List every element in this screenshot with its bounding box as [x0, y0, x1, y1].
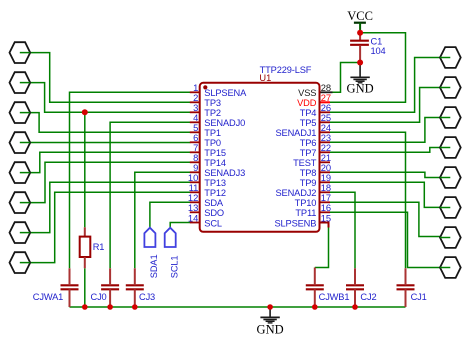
svg-text:CJ2: CJ2: [360, 292, 376, 302]
svg-text:SENADJ0: SENADJ0: [204, 118, 245, 128]
svg-text:TP3: TP3: [204, 98, 221, 108]
svg-text:SCL1: SCL1: [170, 256, 180, 279]
svg-text:104: 104: [371, 46, 386, 56]
svg-text:15: 15: [321, 212, 331, 223]
svg-text:SENADJ2: SENADJ2: [275, 188, 316, 198]
svg-text:TP5: TP5: [300, 118, 317, 128]
svg-text:TP8: TP8: [300, 168, 317, 178]
svg-text:VSS: VSS: [298, 88, 316, 98]
svg-text:CJWA1: CJWA1: [33, 292, 63, 302]
svg-text:VDD: VDD: [297, 98, 317, 108]
svg-text:CJWB1: CJWB1: [319, 292, 350, 302]
svg-text:TP4: TP4: [300, 108, 317, 118]
svg-text:GND: GND: [347, 82, 374, 96]
svg-text:SCL: SCL: [204, 218, 222, 228]
svg-text:VCC: VCC: [347, 9, 373, 23]
svg-text:SLPSENB: SLPSENB: [274, 218, 316, 228]
svg-text:TP11: TP11: [295, 208, 316, 218]
svg-text:TP7: TP7: [300, 148, 317, 158]
svg-text:GND: GND: [257, 323, 284, 337]
svg-text:SLPSENA: SLPSENA: [204, 88, 247, 98]
svg-text:SENADJ1: SENADJ1: [275, 128, 316, 138]
svg-text:TP1: TP1: [204, 128, 221, 138]
svg-text:CJ0: CJ0: [91, 292, 107, 302]
svg-text:TEST: TEST: [293, 158, 317, 168]
svg-text:TP0: TP0: [204, 138, 221, 148]
svg-text:TP15: TP15: [204, 148, 226, 158]
svg-text:SENADJ3: SENADJ3: [204, 168, 245, 178]
svg-text:TP14: TP14: [204, 158, 226, 168]
svg-text:TP12: TP12: [204, 188, 226, 198]
svg-text:TP6: TP6: [300, 138, 317, 148]
svg-text:CJ1: CJ1: [411, 292, 427, 302]
svg-text:U1: U1: [259, 73, 271, 83]
svg-text:TP13: TP13: [204, 178, 226, 188]
svg-text:14: 14: [188, 212, 198, 223]
svg-text:TP9: TP9: [300, 178, 317, 188]
svg-text:SDA1: SDA1: [149, 255, 159, 279]
svg-text:TP2: TP2: [204, 108, 221, 118]
svg-text:SDA: SDA: [204, 198, 224, 208]
svg-text:CJ3: CJ3: [139, 292, 155, 302]
svg-text:TP10: TP10: [295, 198, 317, 208]
svg-text:R1: R1: [93, 242, 105, 252]
svg-text:SDO: SDO: [204, 208, 224, 218]
